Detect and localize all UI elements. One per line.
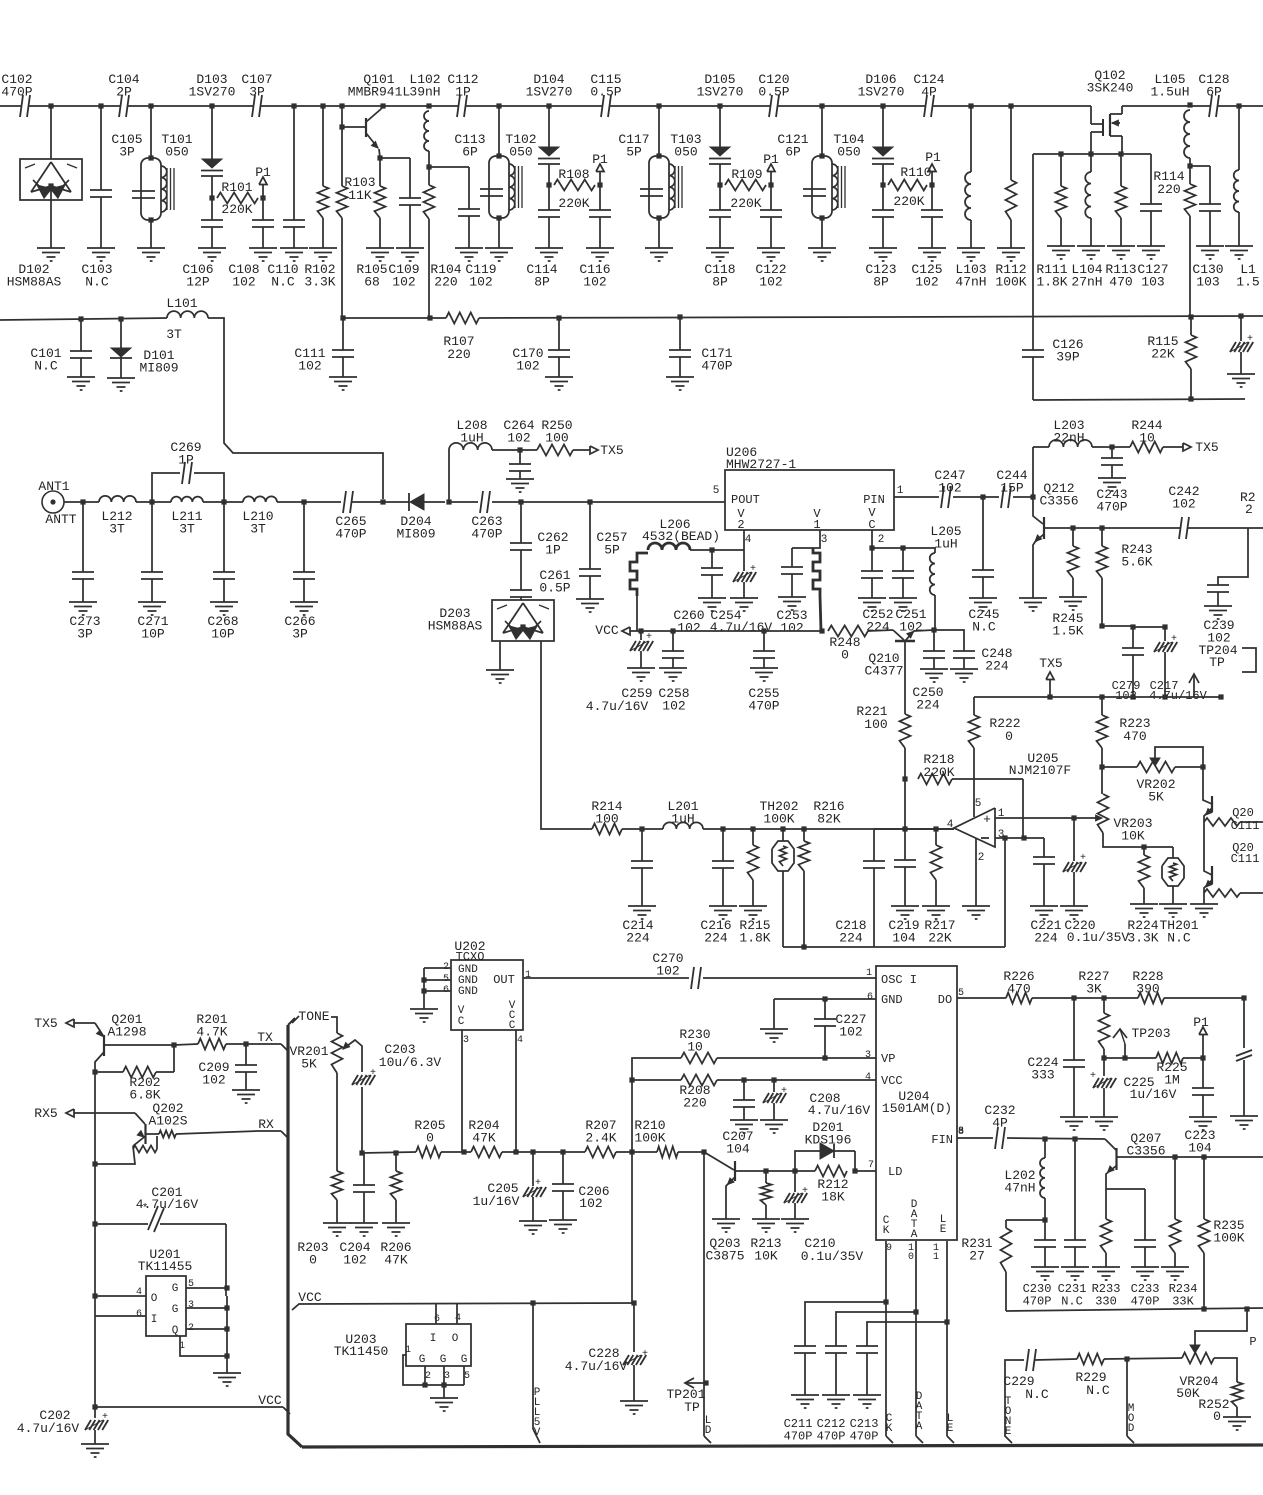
connector ANT1 (42, 491, 64, 513)
svg-text:0.1u/35V: 0.1u/35V (801, 1249, 864, 1264)
IC U206 MHW2727-1 (725, 470, 894, 530)
ground C206 (549, 1219, 577, 1221)
wire left rail 4 (94, 1316, 96, 1407)
svg-text:1P: 1P (545, 543, 561, 558)
svg-text:TK11450: TK11450 (334, 1344, 389, 1359)
wire rail mid (1203, 822, 1205, 866)
node C243 (1109, 444, 1114, 449)
svg-text:3.3K: 3.3K (1127, 931, 1158, 946)
wire U201 pin3 (186, 1307, 227, 1309)
capacitor C257 (589, 502, 591, 569)
svg-text:50K: 50K (1176, 1386, 1200, 1401)
node C216 (720, 826, 725, 831)
thermistor TH201 (1172, 847, 1174, 858)
ground C255 (750, 667, 778, 669)
capacitor C242 (1180, 526, 1188, 531)
svg-text:D: D (1128, 1423, 1135, 1435)
diode D203 (492, 600, 554, 641)
resistor R101 (217, 193, 258, 204)
wire Q212 collector up (1032, 447, 1034, 497)
svg-text:102: 102 (232, 275, 255, 290)
svg-text:102: 102 (780, 621, 803, 636)
svg-text:1: 1 (525, 970, 531, 981)
node L102/R104 (426, 164, 431, 169)
svg-text:47nH: 47nH (1004, 1181, 1035, 1196)
svg-text:0.1u/35V: 0.1u/35V (1067, 930, 1130, 945)
inductor L103 (968, 103, 973, 108)
svg-text:+: + (370, 1068, 376, 1079)
node R243 (1099, 525, 1104, 530)
svg-text:1uH: 1uH (460, 431, 483, 446)
svg-text:102: 102 (899, 620, 922, 635)
svg-text:220: 220 (683, 1096, 706, 1111)
svg-text:N.C: N.C (1061, 1295, 1083, 1309)
svg-text:224: 224 (1034, 931, 1058, 946)
wire left rail (94, 1072, 96, 1164)
wire U203 pin4 (456, 1303, 458, 1324)
svg-text:39P: 39P (1056, 350, 1080, 365)
svg-text:22K: 22K (1151, 347, 1175, 362)
capacitor C262 (520, 502, 522, 543)
svg-text:220: 220 (434, 275, 457, 290)
wire Q210 collector down (904, 641, 906, 714)
wire (136, 501, 171, 503)
svg-text:3P: 3P (292, 627, 308, 642)
svg-text:4.7K: 4.7K (196, 1025, 227, 1040)
node C268 (221, 499, 226, 504)
capacitor C106 (211, 198, 213, 220)
svg-text:VCC: VCC (595, 623, 619, 638)
wire VR203 bottom row (1103, 833, 1173, 847)
wire C244 to Q212 (1013, 496, 1033, 498)
resistor R202 (92, 1069, 97, 1074)
node C203 bottom (359, 1150, 364, 1155)
svg-text:6P: 6P (785, 145, 801, 160)
ground C110 (280, 247, 308, 249)
wire TX5 bias row (974, 696, 1222, 698)
svg-text:TP: TP (684, 1400, 700, 1415)
svg-text:K: K (883, 1225, 890, 1237)
ground C219 (891, 905, 919, 907)
ground C214 (628, 905, 656, 907)
svg-text:R110: R110 (900, 165, 931, 180)
svg-text:10P: 10P (141, 627, 165, 642)
node D105/R109 (717, 182, 722, 187)
capacitor C233 (1144, 1189, 1146, 1240)
svg-text:82K: 82K (817, 812, 841, 827)
capacitor C204 (363, 1153, 365, 1185)
svg-text:Q20: Q20 (1232, 806, 1254, 820)
svg-text:8: 8 (958, 1127, 964, 1138)
resistor R111 (1060, 154, 1062, 186)
capacitor C122 (770, 185, 772, 210)
svg-text:1: 1 (933, 1252, 939, 1263)
svg-text:10: 10 (1139, 431, 1155, 446)
svg-text:1: 1 (813, 518, 820, 532)
resistor R104 (424, 185, 435, 219)
diode D102 (50, 106, 52, 159)
ground C253 (778, 596, 806, 598)
svg-text:103: 103 (1141, 275, 1164, 290)
ground U203 (430, 1397, 458, 1399)
resistor R226 (1006, 993, 1032, 1004)
ground D102 (37, 247, 65, 249)
ground Q212 emitter (1019, 597, 1047, 599)
svg-text:5P: 5P (604, 543, 620, 558)
ground C211 (791, 1394, 819, 1396)
svg-text:470P: 470P (335, 527, 366, 542)
transformer T103 (656, 103, 661, 108)
svg-text:27nH: 27nH (1071, 275, 1102, 290)
svg-text:220K: 220K (730, 196, 761, 211)
potentiometer VR204 (1182, 1353, 1214, 1364)
ground C225 (1090, 1116, 1118, 1118)
svg-text:100K: 100K (634, 1131, 665, 1146)
capacitor C263 (449, 501, 478, 503)
svg-text:DO: DO (938, 993, 952, 1007)
svg-text:4: 4 (865, 1072, 871, 1083)
svg-text:D: D (705, 1425, 712, 1437)
svg-text:4.7u/16V: 4.7u/16V (136, 1197, 199, 1212)
svg-text:3: 3 (444, 1371, 450, 1382)
svg-text:10K: 10K (1121, 829, 1145, 844)
wire R225 row (1104, 1057, 1156, 1059)
testpoint TP204 arrow (1189, 674, 1199, 683)
node C209 (243, 1041, 248, 1046)
resistor R225 (1156, 1053, 1183, 1064)
inductor L106 (1236, 103, 1241, 108)
svg-text:4.7u/16V: 4.7u/16V (17, 1421, 80, 1436)
capacitor C259 electrolytic (640, 631, 642, 640)
svg-text:100K: 100K (1213, 1231, 1244, 1246)
svg-text:6: 6 (136, 1309, 142, 1320)
svg-text:220K: 220K (558, 196, 589, 211)
transistor Q203 (704, 1152, 734, 1170)
inductor L212 (99, 496, 136, 502)
capacitor C232 (996, 1136, 1004, 1141)
svg-text:6P: 6P (1206, 85, 1222, 100)
ground C251 (889, 597, 917, 599)
capacitor C224 (1073, 998, 1075, 1060)
svg-text:102: 102 (583, 275, 606, 290)
svg-text:1P: 1P (178, 453, 194, 468)
wire ANT line to U206 (590, 501, 725, 503)
wire Q207 collector row (1175, 1156, 1263, 1158)
node P1 bottom (1200, 1055, 1205, 1060)
transistor Q102 MOSFET (1090, 106, 1092, 124)
capacitor C279 (1132, 627, 1134, 648)
resistor R227 (1103, 998, 1105, 1013)
wire R205 row (362, 1152, 416, 1153)
svg-text:47nH: 47nH (955, 275, 986, 290)
svg-text:P1: P1 (592, 152, 608, 167)
svg-text:P1: P1 (763, 152, 779, 167)
svg-text:KDS196: KDS196 (805, 1133, 852, 1148)
resistor R109 (725, 180, 766, 191)
capacitor C239 (1218, 528, 1248, 585)
inductor L102 (426, 103, 431, 108)
svg-text:G: G (440, 1354, 447, 1366)
resistor R112 (1008, 103, 1013, 108)
diode D104 varactor (546, 103, 551, 108)
ground C118 (706, 247, 734, 249)
capacitor C118 (719, 185, 721, 210)
svg-text:P1: P1 (1193, 1015, 1209, 1030)
resistor R231 (1005, 1220, 1007, 1228)
capacitor C210 electrolytic (794, 1171, 796, 1192)
svg-text:+: + (1080, 853, 1086, 864)
svg-text:220: 220 (447, 347, 470, 362)
svg-text:12P: 12P (186, 275, 210, 290)
resistor R222 (973, 697, 975, 715)
svg-text:G: G (461, 1354, 468, 1366)
svg-text:220K: 220K (923, 765, 954, 780)
ground C230 (1031, 1266, 1059, 1268)
ground C207 (730, 1119, 758, 1121)
diode D204 (410, 494, 424, 510)
IC U202 TCXO (451, 960, 523, 1030)
ground C213 (853, 1394, 881, 1396)
wire R218 to pin3 (1022, 779, 1024, 838)
ground C243 (1098, 477, 1126, 479)
wire LE column (946, 1241, 948, 1436)
resistor R212 (795, 1170, 815, 1172)
capacitor C112 (458, 104, 466, 109)
IC U201 TK11455 (146, 1276, 186, 1336)
wire rail bottom (1203, 893, 1205, 904)
svg-text:104: 104 (892, 931, 916, 946)
resistor R250 (537, 445, 573, 456)
capacitor C115 (602, 104, 610, 109)
svg-text:2: 2 (878, 534, 885, 546)
svg-text:E: E (947, 1423, 954, 1435)
svg-text:224: 224 (839, 931, 863, 946)
ground C209 (232, 1089, 260, 1091)
wire FIN row (957, 1137, 993, 1139)
node R234 (1172, 1154, 1177, 1159)
wire top RF bus (0, 105, 1091, 107)
wire U201 pin2 (186, 1328, 227, 1330)
svg-text:RX: RX (258, 1117, 274, 1132)
node C227 (822, 996, 827, 1001)
diode D106 varactor (880, 103, 885, 108)
svg-text:1: 1 (897, 485, 904, 497)
svg-text:2: 2 (737, 518, 744, 532)
svg-text:2P: 2P (116, 85, 132, 100)
svg-text:K: K (886, 1423, 893, 1435)
node far right (1241, 995, 1246, 1000)
ground R102 (309, 247, 337, 249)
svg-text:224: 224 (626, 931, 650, 946)
wire (277, 501, 341, 503)
capacitor C254 electrolytic (743, 550, 745, 571)
svg-text:MHW2727-1: MHW2727-1 (726, 457, 796, 472)
ground C259 (627, 667, 655, 669)
wire RX to border (176, 1131, 258, 1134)
svg-text:103: 103 (1196, 275, 1219, 290)
capacitor C245 (982, 497, 984, 570)
capacitor C202 electrolytic (94, 1407, 96, 1418)
svg-text:1.8K: 1.8K (1036, 275, 1067, 290)
node L202 (1042, 1136, 1047, 1141)
capacitor C206 (562, 1152, 564, 1184)
wire MOD column (1126, 1359, 1128, 1436)
wire MOD row (1035, 1359, 1077, 1360)
wire CK column (885, 1241, 887, 1436)
svg-text:L101: L101 (166, 296, 197, 311)
node R217 (933, 826, 938, 831)
node R224 (1141, 844, 1146, 849)
resistor R210 (657, 1147, 678, 1158)
wire L101 to ANT line (208, 318, 383, 499)
ground C221 (1030, 905, 1058, 907)
svg-text:R108: R108 (558, 167, 589, 182)
node C231 (1072, 1136, 1077, 1141)
svg-text:1uH: 1uH (671, 812, 694, 827)
svg-text:C: C (458, 1016, 465, 1028)
svg-text:A: A (911, 1229, 918, 1241)
node C208 (771, 1077, 776, 1082)
svg-text:8P: 8P (712, 275, 728, 290)
wire feedback bottom row (874, 946, 1005, 948)
svg-text:0.5P: 0.5P (590, 85, 621, 100)
ground C210 (781, 1218, 809, 1220)
transistor Q210 (868, 630, 893, 631)
svg-text:+: + (750, 564, 756, 575)
svg-text:22nH: 22nH (1053, 431, 1084, 446)
svg-text:470P: 470P (701, 359, 732, 374)
capacitor C212 (836, 1312, 916, 1346)
node C219 (902, 826, 907, 831)
inductor L208 (449, 443, 492, 450)
svg-text:2: 2 (978, 852, 985, 864)
capacitor electrolytic right edge (1238, 313, 1243, 318)
capacitor C111 (340, 315, 345, 320)
svg-text:+: + (781, 1086, 787, 1097)
ground right edge cap (1227, 373, 1255, 375)
svg-text:G: G (172, 1304, 179, 1316)
svg-text:TP: TP (1209, 655, 1225, 670)
svg-text:TX5: TX5 (1195, 440, 1218, 455)
ground C231 (1061, 1266, 1089, 1268)
node D103/R101 (209, 195, 214, 200)
svg-text:TP203: TP203 (1131, 1026, 1170, 1041)
capacitor C216 (722, 829, 724, 861)
ground C228 (620, 1400, 648, 1402)
node D102 top (48, 103, 53, 108)
svg-text:102: 102 (298, 359, 321, 374)
svg-text:47K: 47K (472, 1131, 496, 1146)
wire VCC bottom (95, 1406, 283, 1408)
svg-text:0.5P: 0.5P (758, 85, 789, 100)
wire (352, 501, 400, 503)
ground R213 (752, 1218, 780, 1220)
wire DATA column (915, 1241, 917, 1436)
ground T101 (137, 247, 165, 249)
svg-text:224: 224 (985, 659, 1009, 674)
svg-text:N.C: N.C (85, 275, 109, 290)
ground C271 (138, 601, 166, 603)
wire D203 to R214 line (541, 641, 592, 829)
svg-text:104: 104 (726, 1142, 750, 1157)
trimmer P1 cell3 (768, 182, 773, 187)
svg-text:VCC: VCC (881, 1074, 903, 1088)
wire U201 right rail (226, 1296, 228, 1356)
capacitor C260 (711, 550, 713, 568)
node R235 (1201, 1154, 1206, 1159)
ground C127 (1137, 245, 1165, 247)
wire U201 pin5 (186, 1287, 227, 1289)
node R218 bottom (1021, 835, 1026, 840)
capacitor C102 (21, 104, 29, 109)
svg-text:0.5P: 0.5P (539, 581, 570, 596)
diode D105 varactor (717, 103, 722, 108)
svg-text:5: 5 (464, 1371, 470, 1382)
svg-text:224: 224 (916, 698, 940, 713)
resistor R213 (765, 1171, 767, 1183)
svg-text:+: + (646, 632, 652, 643)
svg-text:2: 2 (425, 1371, 431, 1382)
resistor R244 (1130, 442, 1163, 453)
node C224 (1071, 995, 1076, 1000)
svg-text:3K: 3K (1086, 982, 1102, 997)
ground T103 (645, 247, 673, 249)
node C220 (1071, 815, 1076, 820)
wire U203 bottom pins (424, 1366, 426, 1385)
svg-text:050: 050 (165, 145, 188, 160)
resistor R207 (585, 1147, 616, 1158)
svg-text:68: 68 (364, 275, 380, 290)
svg-text:C: C (509, 1020, 516, 1032)
wire second bus right (343, 317, 446, 319)
wire U203 pin6 (435, 1303, 437, 1324)
svg-text:3P: 3P (119, 145, 135, 160)
ground C223 (1189, 1116, 1217, 1118)
svg-text:100: 100 (864, 717, 887, 732)
svg-text:LD: LD (888, 1165, 902, 1179)
svg-text:NJM2107F: NJM2107F (1009, 763, 1071, 778)
ground R245 (1059, 596, 1087, 598)
capacitor C171 (677, 314, 682, 319)
svg-text:I: I (430, 1333, 437, 1345)
wire second bus left (0, 318, 167, 320)
svg-text:220K: 220K (893, 194, 924, 209)
svg-text:TK11455: TK11455 (138, 1259, 193, 1274)
svg-text:TX5: TX5 (34, 1016, 57, 1031)
svg-text:C111: C111 (1231, 852, 1260, 866)
trimmer P1 bottom (1202, 1035, 1204, 1058)
node bead2 (819, 628, 824, 633)
svg-text:102: 102 (1172, 497, 1195, 512)
svg-text:0: 0 (309, 1253, 317, 1268)
inductor L211 (171, 497, 203, 502)
svg-text:HSM88AS: HSM88AS (428, 619, 483, 634)
capacitor C219 (904, 829, 906, 860)
svg-text:5K: 5K (301, 1057, 317, 1072)
svg-text:1.5uH: 1.5uH (1150, 85, 1189, 100)
trimmer P1 cell4 (929, 182, 934, 187)
svg-text:6P: 6P (462, 145, 478, 160)
testpoint TP203 (1113, 1029, 1127, 1038)
capacitor C211 (805, 1302, 886, 1346)
capacitor C264 (519, 450, 521, 464)
resistor R218 (918, 774, 952, 785)
svg-text:+: + (983, 812, 991, 827)
svg-text:POUT: POUT (731, 493, 760, 507)
svg-text:100K: 100K (995, 275, 1026, 290)
node D104/R108 (546, 182, 551, 187)
testpoint TP201 (685, 1378, 694, 1388)
